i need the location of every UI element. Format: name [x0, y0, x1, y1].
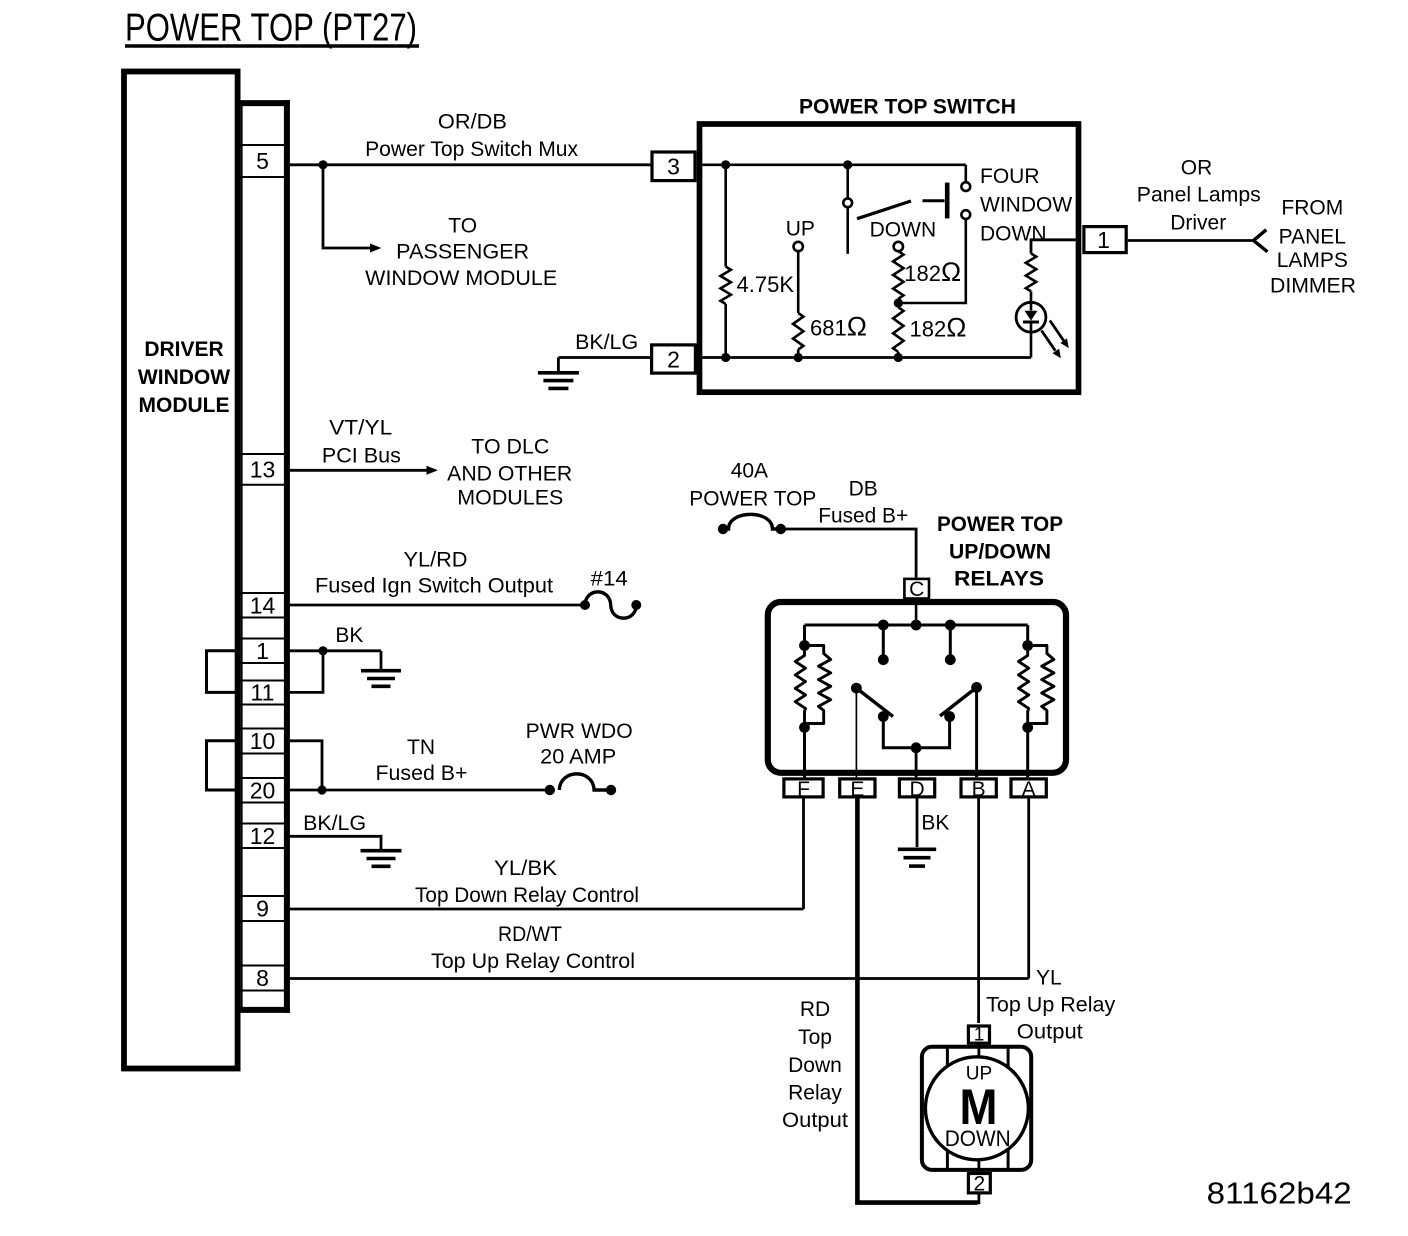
wire resistor to LED — [1030, 291, 1033, 310]
relay armature blade left — [856, 688, 893, 716]
pin F box (relays) — [784, 778, 823, 801]
label 182 ohm lower — [910, 313, 967, 343]
label PCI Bus — [322, 445, 401, 468]
label POWER TOP SWITCH — [799, 96, 1016, 119]
motor brush lines — [947, 1047, 1008, 1170]
svg-text:20: 20 — [250, 777, 276, 803]
wire pin1 to panel lamps dimmer — [1128, 239, 1254, 242]
ground BK (pin D) — [898, 849, 936, 866]
resistor 182 ohm upper — [893, 251, 903, 299]
svg-text:#14: #14 — [591, 568, 628, 591]
svg-text:BK/LG: BK/LG — [303, 812, 366, 835]
wire 4.75K branch lower — [724, 304, 727, 358]
svg-text:11: 11 — [251, 680, 275, 706]
svg-text:8: 8 — [256, 965, 269, 991]
label YL/RD — [404, 548, 468, 571]
label TN — [407, 736, 435, 759]
resistor 182 ohm lower — [893, 307, 903, 352]
svg-text:3: 3 — [667, 154, 680, 180]
svg-text:YL: YL — [1036, 967, 1062, 990]
wire 4.75K branch upper — [724, 165, 727, 267]
label OR/DB — [438, 111, 507, 134]
svg-text:Relay: Relay — [788, 1082, 842, 1105]
driver window module label — [138, 338, 230, 417]
wire pin13 PCI bus — [287, 466, 439, 475]
bracket pins 1-11 — [207, 651, 241, 693]
label POWER TOP UP/DOWN RELAYS — [937, 513, 1063, 591]
svg-text:Panel Lamps: Panel Lamps — [1137, 184, 1261, 207]
wire pin8 top up relay control — [287, 977, 1029, 980]
wire pin20 TN fused B+ — [287, 789, 550, 792]
svg-text:DRIVER: DRIVER — [144, 338, 223, 361]
arrow from panel lamps dimmer — [1254, 230, 1268, 252]
pin 14 (driver window module) — [241, 592, 286, 618]
switch bottom internal rail — [702, 356, 1031, 359]
junction dot rail right contact — [945, 620, 956, 631]
svg-text:DOWN: DOWN — [870, 218, 937, 241]
wire pin12 BK/LG ground — [287, 836, 382, 849]
svg-text:POWER TOP (PT27): POWER TOP (PT27) — [125, 7, 417, 50]
svg-text:9: 9 — [256, 896, 269, 922]
wire branch to passenger window module — [323, 165, 382, 253]
wire pin9 top down relay control — [287, 908, 804, 911]
svg-text:1: 1 — [256, 638, 269, 664]
wire relay common to pin D — [915, 748, 918, 778]
wire stub motor pin2 — [978, 1193, 981, 1204]
svg-text:C: C — [909, 578, 924, 601]
svg-text:PASSENGER: PASSENGER — [396, 241, 529, 264]
bracket pins 10-20 — [207, 741, 241, 790]
label FROM PANEL LAMPS DIMMER — [1270, 197, 1356, 298]
label 20 AMP — [540, 746, 616, 769]
svg-text:Fused Ign Switch Output: Fused Ign Switch Output — [315, 575, 553, 598]
svg-text:VT/YL: VT/YL — [329, 417, 392, 440]
driver window module box — [124, 72, 238, 1069]
svg-text:PCI Bus: PCI Bus — [322, 445, 401, 468]
svg-text:Fused B+: Fused B+ — [818, 505, 908, 528]
svg-text:182Ω: 182Ω — [904, 257, 961, 287]
wire 182 to junction — [897, 299, 900, 303]
svg-text:UP: UP — [786, 217, 815, 240]
junction dot rail mid — [843, 160, 852, 169]
label TO PASSENGER WINDOW MODULE — [365, 215, 557, 291]
relay coil (top up) — [1019, 625, 1054, 777]
power top switch box — [700, 124, 1079, 392]
svg-text:POWER TOP: POWER TOP — [689, 488, 816, 511]
motor circle — [925, 1057, 1028, 1160]
svg-text:Driver: Driver — [1170, 212, 1226, 235]
pin B box (relays) — [961, 778, 996, 801]
pushbutton actuator — [923, 183, 948, 219]
svg-text:Top Up Relay Control: Top Up Relay Control — [431, 950, 635, 973]
pin A box (relays) — [1011, 778, 1046, 801]
svg-text:B: B — [972, 778, 986, 801]
svg-text:1: 1 — [1097, 227, 1110, 253]
label RD/WT — [498, 923, 562, 946]
relay internal rail — [805, 624, 1028, 627]
label Fused B+ (relay) — [818, 505, 908, 528]
svg-text:PANEL: PANEL — [1279, 226, 1346, 249]
svg-text:AND OTHER: AND OTHER — [447, 463, 572, 486]
pin 12 (driver window module) — [241, 823, 286, 849]
svg-text:F: F — [797, 778, 810, 801]
svg-text:LAMPS: LAMPS — [1277, 249, 1348, 272]
pin 1 (driver window module) — [241, 638, 286, 664]
wire pin5 to pin3 (OR/DB Power Top Switch Mux) — [287, 163, 651, 166]
junction dot rail left — [721, 160, 730, 169]
svg-text:RD/WT: RD/WT — [498, 923, 562, 946]
pin 2 box (switch) — [652, 345, 696, 373]
label Top Up Relay Control — [431, 950, 635, 973]
wire pin11 to junction — [287, 651, 324, 693]
power top up/down relays box — [768, 602, 1066, 773]
motor wire pin1 internal — [978, 1042, 981, 1057]
wire pin10 to pin20 junction — [287, 741, 323, 790]
label DOWN (motor) — [945, 1126, 1011, 1151]
resistor 4.75K — [721, 267, 731, 304]
wire pivot right to pin B — [975, 687, 978, 777]
svg-text:Output: Output — [1017, 1021, 1083, 1044]
LED indicator — [1016, 302, 1046, 332]
junction dot relay common — [911, 742, 922, 753]
fuse 40A POWER TOP — [718, 514, 786, 534]
svg-text:BK/LG: BK/LG — [575, 331, 638, 354]
relay coil (top down) — [795, 625, 830, 777]
pin 8 (driver window module) — [241, 965, 286, 991]
switch blade — [857, 201, 911, 219]
label 681 ohm — [810, 312, 867, 342]
svg-text:PWR WDO: PWR WDO — [526, 720, 633, 743]
svg-text:Top Down Relay Control: Top Down Relay Control — [415, 884, 639, 907]
wire pin14 fused ign switch output — [287, 604, 586, 607]
pin D box (relays) — [899, 778, 934, 801]
UP contact — [794, 242, 803, 251]
svg-text:OR/DB: OR/DB — [438, 111, 507, 134]
label OR Panel Lamps Driver — [1137, 157, 1261, 235]
switch common contact — [843, 198, 852, 207]
power top motor box — [922, 1047, 1031, 1170]
svg-text:POWER TOP SWITCH: POWER TOP SWITCH — [799, 96, 1016, 119]
svg-text:Top Up Relay: Top Up Relay — [986, 994, 1116, 1017]
svg-text:5: 5 — [256, 148, 269, 174]
svg-text:BK: BK — [921, 812, 949, 835]
relay armature pivot right — [971, 682, 982, 693]
fuse #14 — [580, 592, 641, 618]
switch common pole wire — [846, 165, 849, 199]
relay NC contact dot right — [945, 654, 956, 665]
wire pin1 BK ground — [287, 649, 382, 652]
wire pin D to ground — [916, 799, 919, 848]
wire fuse to relay pin C — [781, 529, 916, 578]
motor pin 2 box — [968, 1173, 990, 1196]
label YL/BK — [494, 857, 557, 880]
pin 13 (driver window module) — [241, 454, 286, 485]
label Power Top Switch Mux — [365, 138, 579, 161]
svg-text:Top: Top — [798, 1026, 832, 1049]
label Top Down Relay Control — [415, 884, 639, 907]
svg-text:D: D — [909, 778, 924, 801]
label UP (switch) — [786, 217, 815, 240]
label DOWN (switch) — [870, 218, 937, 241]
junction dot bottom left — [721, 353, 730, 362]
wire LED to rail — [1030, 322, 1033, 358]
label BK (pin D) — [921, 812, 949, 835]
relay NC contact dot left — [878, 654, 889, 665]
svg-text:YL/BK: YL/BK — [494, 857, 557, 880]
svg-text:DOWN: DOWN — [945, 1126, 1011, 1151]
relay common path to pin D — [883, 717, 949, 748]
svg-text:RELAYS: RELAYS — [954, 568, 1044, 591]
svg-text:Down: Down — [788, 1054, 842, 1077]
wire 681 to rail — [797, 350, 800, 358]
wire pin2 BK/LG — [558, 356, 651, 359]
svg-text:Fused B+: Fused B+ — [376, 762, 468, 785]
svg-text:POWER TOP: POWER TOP — [937, 513, 1063, 536]
relay armature contact left — [878, 711, 889, 722]
label FOUR WINDOW DOWN — [980, 165, 1072, 246]
switch top internal rail — [702, 164, 966, 167]
svg-text:E: E — [850, 778, 864, 801]
wire rail to four-window-down — [964, 165, 967, 183]
svg-text:FROM: FROM — [1281, 197, 1343, 220]
svg-text:BK: BK — [335, 624, 363, 647]
svg-text:DIMMER: DIMMER — [1270, 275, 1356, 298]
svg-text:13: 13 — [250, 457, 276, 483]
pin 11 (driver window module) — [241, 680, 286, 706]
label PWR WDO — [526, 720, 633, 743]
pin 3 box (switch) — [652, 152, 695, 181]
svg-text:WINDOW MODULE: WINDOW MODULE — [365, 267, 557, 290]
label 4.75K — [737, 272, 795, 297]
motor wire pin2 internal — [978, 1160, 981, 1174]
svg-text:4.75K: 4.75K — [737, 272, 795, 297]
wire pin F to pin9 wire — [802, 799, 805, 910]
svg-text:14: 14 — [250, 592, 276, 618]
svg-text:WINDOW: WINDOW — [980, 194, 1072, 217]
label VT/YL — [329, 417, 392, 440]
resistor 681 ohm — [793, 313, 803, 350]
svg-text:2: 2 — [973, 1173, 985, 1196]
junction dot on pin5 wire — [318, 160, 327, 169]
driver window module connector strip — [238, 100, 290, 1013]
ground BK (pin 1/11) — [361, 671, 401, 687]
svg-text:10: 10 — [250, 728, 276, 754]
DOWN contact — [894, 242, 903, 251]
pin 5 (driver window module) — [241, 145, 286, 177]
label BK — [335, 624, 363, 647]
svg-text:Power Top Switch Mux: Power Top Switch Mux — [365, 138, 579, 161]
svg-text:TN: TN — [407, 736, 435, 759]
wire pivot left to pin E — [855, 688, 857, 777]
svg-text:20 AMP: 20 AMP — [540, 746, 616, 769]
svg-text:MODULES: MODULES — [457, 487, 563, 510]
label TO DLC AND OTHER MODULES — [447, 436, 572, 510]
junction dot 182 — [894, 298, 903, 307]
junction dot bottom right — [894, 353, 903, 362]
label YL Top Up Relay Output — [986, 967, 1116, 1044]
label BK/LG (pin12) — [303, 812, 366, 835]
svg-text:FOUR: FOUR — [980, 165, 1040, 188]
wire 182 lower to rail — [897, 352, 900, 358]
svg-text:OR: OR — [1181, 157, 1213, 180]
junction dot pin10/pin20 — [317, 785, 326, 794]
label RD Top Down Relay Output — [782, 998, 848, 1132]
LED arrows — [1042, 321, 1069, 359]
svg-text:YL/RD: YL/RD — [404, 548, 468, 571]
pin E box (relays) — [840, 778, 875, 801]
svg-text:MODULE: MODULE — [139, 394, 230, 417]
wire pin1 to LED resistor — [1031, 240, 1079, 254]
relay armature pivot left — [851, 683, 862, 694]
svg-text:12: 12 — [250, 823, 276, 849]
pin 1 box (switch) — [1084, 227, 1126, 253]
svg-text:RD: RD — [800, 998, 830, 1021]
svg-text:TO: TO — [448, 215, 477, 238]
svg-text:40A: 40A — [731, 460, 768, 483]
label UP (motor) — [966, 1064, 992, 1085]
svg-text:681Ω: 681Ω — [810, 312, 867, 342]
wire stub to ground (pin2) — [557, 358, 560, 372]
resistor LED series — [1026, 254, 1036, 292]
wire pin B to motor pin1 (YL) — [977, 799, 980, 1024]
wire UP to 681 — [797, 251, 800, 313]
junction dot bottom mid — [794, 353, 803, 362]
svg-text:WINDOW: WINDOW — [138, 366, 230, 389]
relay NC stub right — [949, 625, 952, 655]
wire stub to BK ground — [380, 651, 383, 669]
svg-text:DB: DB — [849, 478, 878, 501]
ground BK/LG (switch pin2) — [538, 373, 579, 389]
wire pin A to pin8 wire — [1027, 799, 1030, 979]
svg-text:DOWN: DOWN — [980, 223, 1047, 246]
svg-text:A: A — [1022, 778, 1036, 801]
svg-text:Output: Output — [782, 1109, 848, 1132]
ground BK/LG (pin 12) — [361, 851, 402, 867]
label M (motor) — [960, 1079, 998, 1135]
label DB — [849, 478, 878, 501]
junction dot rail left contact — [878, 620, 889, 631]
relay NC stub left — [882, 625, 885, 655]
svg-text:2: 2 — [667, 347, 680, 373]
junction dot pin1/pin11 — [318, 646, 327, 655]
label Fused B+ (pin20) — [376, 762, 468, 785]
svg-text:182Ω: 182Ω — [910, 313, 967, 343]
relay armature blade right — [940, 687, 977, 716]
svg-text:81162b42: 81162b42 — [1207, 1176, 1352, 1211]
fuse PWR WDO 20 AMP — [545, 774, 617, 795]
wire pin E to motor pin2 (RD) — [857, 799, 977, 1203]
switch pole lower stub — [846, 207, 849, 254]
relay armature contact right — [944, 711, 955, 722]
label Fused Ign Switch Output — [315, 575, 553, 598]
title POWER TOP (PT27) — [125, 7, 419, 50]
motor pin 1 box — [968, 1025, 989, 1046]
svg-text:UP/DOWN: UP/DOWN — [949, 541, 1051, 564]
pin 9 (driver window module) — [241, 896, 286, 922]
junction dot rail C — [911, 620, 922, 631]
pin 20 (driver window module) — [241, 777, 286, 803]
label 182 ohm upper — [904, 257, 961, 287]
wire pin C into relay box — [915, 599, 918, 625]
diagram id 81162b42 — [1207, 1176, 1352, 1211]
svg-text:TO DLC: TO DLC — [471, 436, 549, 459]
pin C box (relays) — [904, 578, 929, 601]
pin 10 (driver window module) — [241, 728, 286, 754]
label #14 — [591, 568, 628, 591]
wire four-window-down to 182 junction — [898, 219, 966, 303]
label 40A — [731, 460, 768, 483]
four window down lower contact — [961, 210, 970, 219]
label BK/LG (switch) — [575, 331, 638, 354]
four window down upper contact — [961, 182, 970, 191]
label POWER TOP (fuse) — [689, 488, 816, 511]
